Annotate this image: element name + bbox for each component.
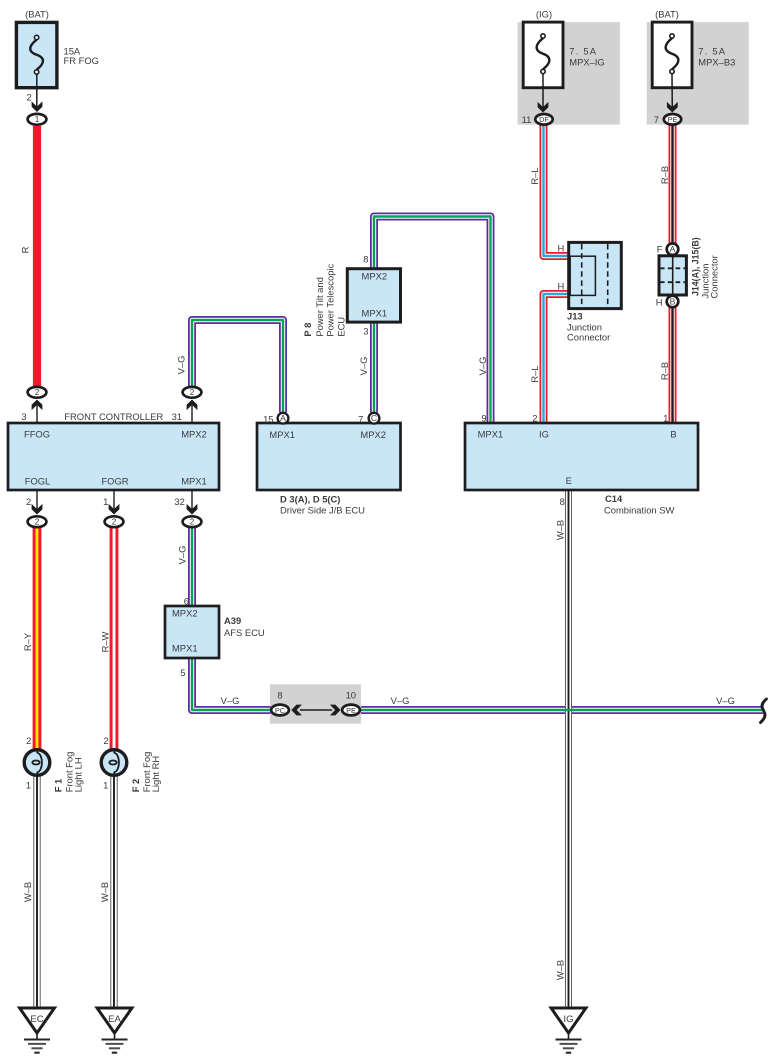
svg-text:1: 1: [103, 780, 108, 791]
svg-text:IG: IG: [563, 1014, 573, 1025]
svg-text:2: 2: [532, 413, 537, 424]
svg-text:MPX–B3: MPX–B3: [698, 57, 735, 68]
svg-text:C: C: [371, 413, 377, 423]
svg-text:R–L: R–L: [529, 365, 540, 382]
svg-text:B: B: [670, 297, 676, 307]
svg-text:10: 10: [346, 689, 356, 700]
svg-text:Connector: Connector: [709, 255, 720, 298]
svg-text:11: 11: [522, 114, 532, 125]
svg-text:B: B: [670, 429, 676, 440]
svg-text:FFOG: FFOG: [24, 429, 50, 440]
svg-text:FRONT CONTROLLER: FRONT CONTROLLER: [64, 411, 163, 422]
svg-text:Light LH: Light LH: [73, 757, 84, 792]
svg-text:9: 9: [481, 413, 486, 424]
svg-text:W–B: W–B: [22, 882, 33, 902]
svg-text:F 2: F 2: [130, 779, 141, 793]
svg-text:J13: J13: [567, 311, 583, 322]
svg-text:7: 7: [358, 413, 363, 424]
svg-text:A39: A39: [224, 615, 241, 626]
svg-text:MPX2: MPX2: [181, 429, 207, 440]
svg-text:MPX1: MPX1: [478, 429, 504, 440]
svg-text:R–Y: R–Y: [22, 632, 33, 651]
svg-text:1: 1: [35, 115, 40, 124]
svg-text:PE: PE: [346, 706, 356, 715]
svg-text:(BAT): (BAT): [655, 9, 679, 20]
svg-text:1: 1: [103, 496, 108, 507]
svg-text:MPX1: MPX1: [362, 307, 388, 318]
svg-text:Light RH: Light RH: [150, 756, 161, 792]
svg-text:V–G: V–G: [391, 695, 410, 706]
svg-text:Driver Side J/B ECU: Driver Side J/B ECU: [280, 504, 365, 515]
svg-text:5: 5: [180, 667, 185, 678]
svg-text:PE: PE: [668, 115, 678, 124]
svg-text:F 1: F 1: [53, 779, 64, 793]
svg-text:2: 2: [26, 496, 31, 507]
svg-text:2: 2: [190, 388, 195, 397]
svg-text:31: 31: [172, 411, 182, 422]
svg-text:EA: EA: [108, 1014, 121, 1025]
svg-text:AFS ECU: AFS ECU: [224, 627, 265, 638]
svg-text:V–G: V–G: [176, 546, 187, 565]
svg-text:6: 6: [184, 595, 189, 606]
svg-text:A: A: [280, 413, 286, 423]
svg-text:2: 2: [26, 91, 31, 102]
svg-text:F: F: [657, 244, 663, 255]
svg-text:H: H: [558, 242, 565, 253]
svg-text:R–B: R–B: [659, 166, 670, 184]
svg-text:ECU: ECU: [335, 317, 346, 337]
svg-text:W–B: W–B: [555, 960, 566, 980]
svg-text:3: 3: [363, 326, 368, 337]
svg-text:V–G: V–G: [176, 356, 187, 375]
svg-text:2: 2: [35, 518, 40, 527]
svg-text:D 3(A), D 5(C): D 3(A), D 5(C): [280, 493, 340, 504]
svg-text:Combination SW: Combination SW: [604, 504, 674, 515]
svg-text:MPX1: MPX1: [181, 475, 207, 486]
svg-text:3: 3: [21, 411, 26, 422]
svg-text:Connector: Connector: [567, 332, 610, 343]
svg-text:32: 32: [174, 496, 184, 507]
svg-text:MPX1: MPX1: [269, 429, 295, 440]
svg-text:FOGR: FOGR: [101, 475, 128, 486]
svg-text:2: 2: [190, 518, 195, 527]
svg-text:2: 2: [103, 735, 108, 746]
svg-text:15: 15: [263, 413, 273, 424]
svg-text:(IG): (IG): [536, 9, 552, 20]
svg-text:V–G: V–G: [358, 357, 369, 376]
svg-text:1: 1: [26, 780, 31, 791]
svg-text:8: 8: [277, 690, 282, 701]
svg-text:8: 8: [560, 496, 565, 507]
svg-text:W–B: W–B: [555, 520, 566, 540]
svg-text:MPX2: MPX2: [360, 429, 386, 440]
svg-text:7. 5A: 7. 5A: [698, 45, 726, 56]
svg-text:P 8: P 8: [302, 323, 313, 337]
svg-text:Power Tilt and: Power Tilt and: [314, 277, 325, 336]
svg-text:MPX2: MPX2: [172, 608, 198, 619]
svg-text:DF: DF: [539, 115, 549, 124]
svg-text:EC: EC: [30, 1014, 43, 1025]
svg-text:R: R: [20, 246, 31, 253]
svg-text:2: 2: [35, 388, 40, 397]
svg-text:H: H: [656, 297, 663, 308]
svg-text:2: 2: [26, 735, 31, 746]
svg-text:MPX1: MPX1: [172, 643, 198, 654]
svg-text:1: 1: [663, 413, 668, 424]
svg-text:Power Telescopic: Power Telescopic: [325, 264, 336, 337]
svg-text:7. 5A: 7. 5A: [569, 45, 597, 56]
svg-text:V–G: V–G: [477, 357, 488, 376]
svg-text:E: E: [566, 475, 572, 486]
svg-text:7: 7: [654, 114, 659, 125]
svg-text:PC: PC: [275, 706, 286, 715]
svg-text:FOGL: FOGL: [25, 475, 51, 486]
svg-text:FR FOG: FR FOG: [64, 55, 99, 66]
svg-text:V–G: V–G: [221, 695, 240, 706]
svg-text:MPX–IG: MPX–IG: [569, 57, 604, 68]
svg-text:H: H: [558, 281, 565, 292]
svg-text:W–B: W–B: [99, 882, 110, 902]
svg-text:R–W: R–W: [99, 631, 110, 652]
svg-text:R–L: R–L: [529, 167, 540, 184]
svg-text:A: A: [670, 244, 676, 254]
svg-text:2: 2: [112, 518, 117, 527]
svg-text:IG: IG: [539, 429, 549, 440]
svg-text:V–G: V–G: [716, 695, 735, 706]
svg-text:MPX2: MPX2: [362, 270, 388, 281]
svg-text:8: 8: [363, 253, 368, 264]
svg-text:(BAT): (BAT): [25, 9, 49, 20]
svg-text:R–B: R–B: [659, 362, 670, 380]
svg-text:C14: C14: [605, 493, 623, 504]
